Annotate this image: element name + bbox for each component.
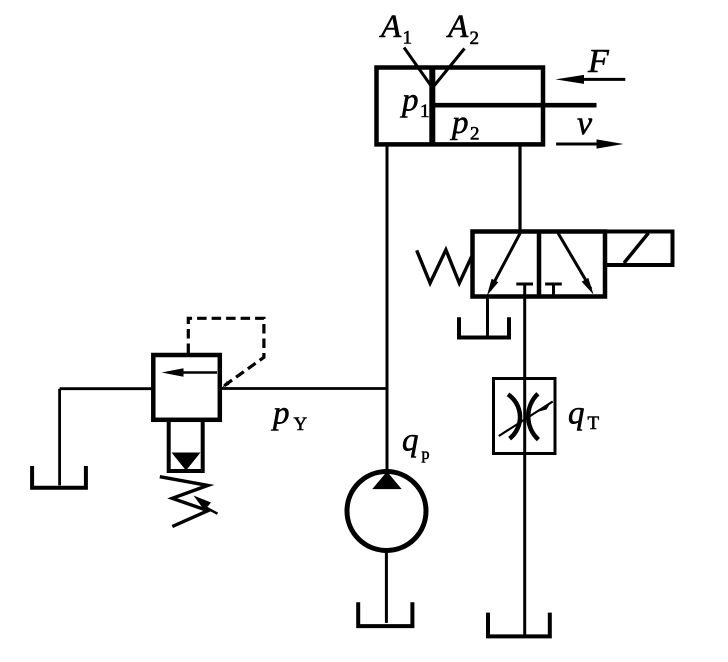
piston rod [434,103,597,108]
wire cylinder left port down to pump [386,144,389,473]
velocity arrow v [556,143,599,146]
svg-text:F: F [587,43,610,80]
right position arrow [558,233,591,289]
directional valve body [473,232,606,297]
svg-text:2: 2 [470,124,480,145]
pY line left segment [60,387,154,390]
relief valve internal arrow [180,371,217,374]
poppet cone [172,453,201,471]
svg-text:A: A [446,9,469,45]
piston [429,68,435,145]
pump triangle [372,472,402,490]
left position arrow A to T [490,233,521,291]
svg-text:p: p [271,396,290,432]
relief spring adjust arrow [205,507,218,514]
solenoid box [605,232,673,266]
pilot line arrowhead [222,381,229,387]
throttle left arc [508,394,520,438]
wire cylinder right port down to valve [518,144,521,231]
pump suction wire [385,551,388,623]
pressure wire through valve down to throttle [523,284,526,635]
valve drain tank [459,317,509,337]
svg-text:q: q [402,423,419,459]
throttle right arc [528,394,538,440]
valve drain wire [486,297,489,337]
svg-text:1: 1 [420,101,430,122]
relief pilot dashed line [188,318,264,387]
poppet housing [169,420,203,471]
leader A2 [434,49,465,87]
pump circle [347,472,426,551]
svg-text:p: p [450,105,469,141]
force arrow F [581,78,625,81]
relief valve drain drop [58,389,61,486]
leader A1 [404,48,431,86]
throttle valve box [494,379,556,454]
pump tank [358,602,412,626]
cylinder body [377,68,544,145]
svg-text:q: q [568,396,585,432]
relief spring [160,477,208,527]
svg-text:v: v [577,105,593,142]
blocked port T1 [516,283,533,286]
svg-text:A: A [379,9,402,45]
svg-text:Y: Y [294,414,308,435]
svg-text:1: 1 [403,28,413,49]
relief valve drain tank [32,466,86,488]
svg-text:2: 2 [470,28,480,49]
svg-text:p: p [422,446,430,463]
pY line right segment [221,387,388,390]
throttle adjust arrow [499,402,553,437]
blocked port T2 [545,283,562,286]
valve spring [417,250,472,283]
relief valve body [153,355,220,420]
svg-text:T: T [588,413,600,434]
throttle outlet tank [488,613,550,637]
svg-text:p: p [400,83,419,119]
